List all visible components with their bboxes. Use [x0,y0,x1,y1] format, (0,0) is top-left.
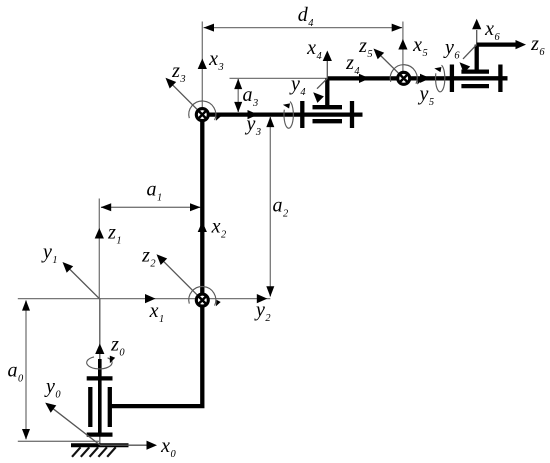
axis z6 thick arrow [477,40,526,49]
axis z1 arrow [95,228,104,239]
label z6 [530,33,545,58]
axis z5 with arrow [374,49,404,79]
label x4 [306,37,322,62]
joint J4 cylinder bottom plate [313,119,343,123]
label y1 [41,241,58,266]
label z3 [171,60,186,85]
axis y6 with arrow [460,45,477,73]
wire x1/y2 horizontal axis line [18,298,270,300]
axis z0 arrow [95,344,104,355]
joint J4 cylinder top plate [313,105,343,109]
dimension a3 line with arrows [234,79,242,113]
label a0 [8,360,25,385]
label x6 [484,18,500,43]
axis x3 arrow [198,59,207,70]
axis x1 arrow [145,294,156,303]
dimension a1 line with arrows [101,203,201,211]
label x2 [211,216,227,241]
label x5 [412,34,428,59]
axis z2 with arrow [157,254,203,300]
axis x4 with arrow [323,51,332,79]
joint J3 circled-X symbol [196,109,208,121]
joint J6 cylinder bottom plate [461,84,489,88]
joint J4 cylinder right bar [350,101,354,128]
base cylinder shaft [98,359,102,435]
dimension d4 line with arrows [204,24,403,32]
joint J4 cylinder left bar [300,101,304,128]
dimension a2 line with arrows [266,117,274,297]
axis x6 with arrow [472,19,481,45]
axis z3 with arrow [166,78,203,115]
label d4 [298,4,314,29]
base cylinder top plate [87,376,113,380]
axis y5 arrow on shaft [420,74,431,83]
label y5 [418,83,435,108]
label z4 [345,52,360,77]
label z5 [358,35,373,60]
wire frame4 stem [325,78,329,107]
label y3 [245,113,262,138]
ground hatching [72,447,116,457]
label a1 [147,179,163,204]
joint J2 rotation arc [189,287,221,307]
axis y1 with arrow [63,262,100,299]
joint J6 cylinder left bar [450,65,454,93]
wire link3 (joint3 to joint4 shaft) [208,112,363,116]
joint J6 rotation arrow [434,65,445,92]
joint J3 rotation arc [189,101,221,121]
base cylinder left bar [88,387,92,427]
label x1 [149,300,165,325]
joint J2 circled-X symbol [196,294,208,306]
ground line [71,443,129,447]
axis y3 arrow on link3 [248,110,259,119]
joint J5 rotation arc [390,65,422,85]
joint J6 cylinder top plate [461,69,489,73]
axis z4 arrow on link [359,74,370,83]
label y6 [443,37,460,62]
wire frame6 stem [475,45,479,72]
base rotation arrow about z0 [87,356,116,369]
label a3 [243,84,259,109]
axis x0 with arrow [100,441,157,450]
wire link2 upper (joint2 to joint3) [200,121,204,296]
label z1 [107,222,122,247]
wire link4-5 shaft (frame4 through joint5 to wrist) [327,76,507,80]
wire z1/z0 vertical axis line [98,199,101,446]
label z0 [110,334,125,359]
label y4 [289,73,306,98]
wire a3 top extension line [230,77,328,79]
base cylinder bottom plate [87,432,113,436]
label a2 [273,195,289,220]
wire x5 axis / d4 right extension line [402,22,404,72]
label y0 [44,376,61,401]
label z2 [141,245,156,270]
wire a0 bottom extension line [18,440,100,442]
joint J6 cylinder right bar [498,65,502,93]
dimension a0 line with arrows [22,300,30,439]
label x0 [160,435,176,460]
axis x2 arrow on link2 [198,222,207,233]
label x3 [208,48,224,73]
wire x3 axis / d4 left extension line [201,22,203,108]
label y2 [254,299,271,324]
joint J5 circled-X symbol [398,72,410,84]
axis x5 arrow [398,39,407,50]
axis y2 arrow [257,294,268,303]
wire link1 L-shape (base to joint2) [111,305,203,406]
joint J4 rotation arrow [283,102,293,129]
axis y4 with arrow [313,78,327,103]
base cylinder right bar [108,387,112,427]
axis y0 with arrow [45,403,100,445]
